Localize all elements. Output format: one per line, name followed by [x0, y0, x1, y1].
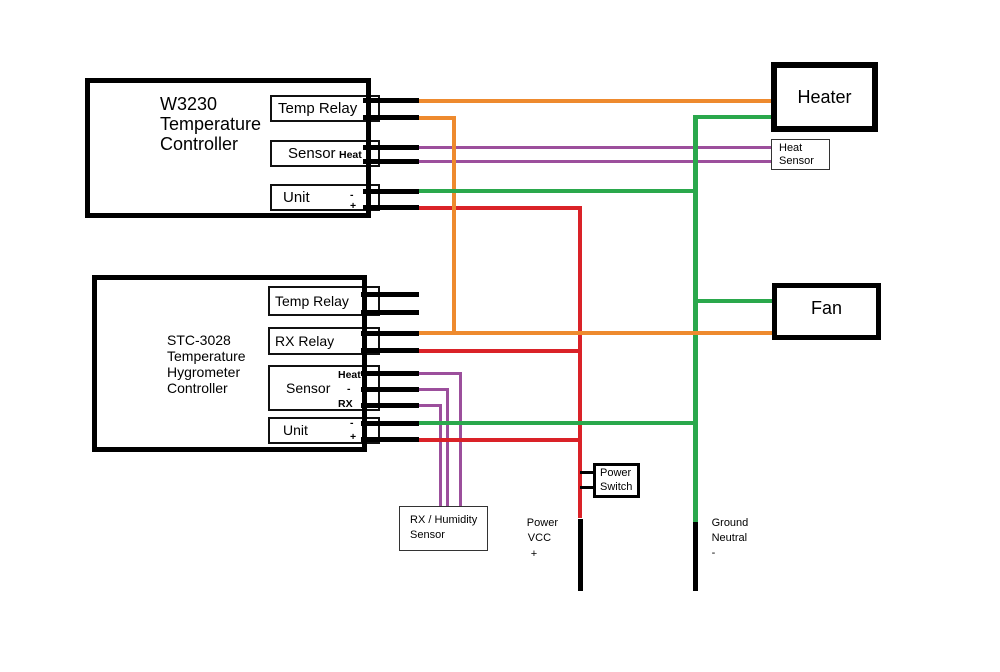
purple stub STC Heat pin — [419, 372, 462, 375]
green vertical ground bus — [693, 115, 698, 522]
purple wire W3230 sensor pin2 to Heat Sensor — [419, 160, 772, 163]
purple vertical from STC sensor - pin — [446, 388, 449, 509]
Fan box — [772, 283, 881, 340]
W3230 pin stub 2 — [363, 115, 419, 120]
STC pin stub 6 (sensor -) — [361, 387, 419, 392]
STC pin stub 4 (rx relay) — [361, 348, 419, 353]
STC-3028 controller box — [92, 275, 367, 452]
purple vertical from STC sensor RX pin — [439, 404, 442, 509]
STC pin stub 2 (temp relay) — [361, 310, 419, 315]
label box Sensor (STC) — [268, 365, 380, 411]
red wire STC RX Relay horizontal — [415, 349, 582, 353]
pin label Heat (STC sensor) — [338, 369, 361, 381]
black wire Ground Neutral lead — [693, 522, 698, 591]
pin label - (W3230 unit) — [350, 189, 354, 201]
purple wire W3230 sensor pin1 to Heat Sensor — [419, 146, 772, 149]
orange over green crossing patch at Fan feed — [692, 331, 698, 335]
pin label Heat (W3230 sensor) — [339, 149, 362, 161]
green wire W3230 Unit - horizontal — [418, 189, 698, 193]
W3230 pin stub 3 — [363, 145, 419, 150]
green wire to Fan — [693, 299, 775, 303]
W3230 box right edge overlay — [366, 78, 371, 218]
pin label RX (STC sensor) — [338, 398, 353, 410]
orange vertical drop — [452, 116, 456, 336]
W3230 pin stub 4 — [363, 159, 419, 164]
STC pin stub 9 (unit +) — [361, 437, 419, 442]
label box Unit (W3230) — [270, 184, 380, 211]
black stub Power Switch bottom — [580, 486, 595, 490]
STC pin stub 8 (unit -) — [361, 421, 419, 426]
STC box right edge overlay — [362, 275, 367, 452]
pin label - (STC unit) — [350, 417, 354, 429]
orange wire W3230 Temp Relay pin1 to Heater — [418, 99, 773, 103]
red vertical VCC bus — [578, 206, 582, 519]
label box Temp Relay (STC) — [268, 286, 380, 316]
W3230 pin stub 6 — [363, 205, 419, 210]
red wire W3230 Unit + horizontal — [418, 206, 582, 210]
label box RX Relay (STC) — [268, 327, 380, 355]
RX / Humidity Sensor box — [399, 506, 488, 551]
orange wire W3230 Temp Relay pin2 horizontal — [418, 116, 456, 120]
Heater box — [771, 62, 878, 132]
STC pin stub 5 (sensor heat) — [361, 371, 419, 376]
pin label + (STC unit) — [350, 431, 356, 443]
pin label - (STC sensor) — [347, 383, 351, 395]
STC-3028 label text — [167, 332, 246, 396]
STC pin stub 1 (temp relay) — [361, 292, 419, 297]
purple stub STC - pin — [419, 388, 449, 391]
label box Unit (STC) — [268, 417, 380, 444]
W3230 controller box — [85, 78, 371, 218]
STC pin stub 7 (sensor rx) — [361, 403, 419, 408]
W3230 pin stub 5 — [363, 189, 419, 194]
Power Switch box — [593, 463, 640, 498]
Heat Sensor box — [771, 139, 830, 170]
black wire Power VCC lead — [578, 519, 583, 591]
node Power VCC + — [527, 516, 558, 563]
label box Temp Relay (W3230) — [270, 95, 380, 122]
orange wire STC RX Relay to Fan — [415, 331, 774, 335]
red wire STC Unit + horizontal — [414, 438, 582, 442]
STC pin stub 3 (rx relay) — [361, 331, 419, 336]
green wire to Heater — [693, 115, 774, 119]
W3230 pin stub 1 — [363, 98, 419, 103]
purple stub STC RX pin — [419, 404, 442, 407]
pin label + (W3230 unit) — [350, 200, 356, 212]
W3230 label text — [160, 94, 261, 155]
black stub Power Switch top — [580, 471, 595, 475]
label box Sensor (W3230) — [270, 140, 380, 167]
purple vertical from STC sensor Heat pin — [459, 372, 462, 509]
green wire STC Unit - horizontal — [414, 421, 698, 425]
node Ground Neutral - — [712, 516, 749, 561]
